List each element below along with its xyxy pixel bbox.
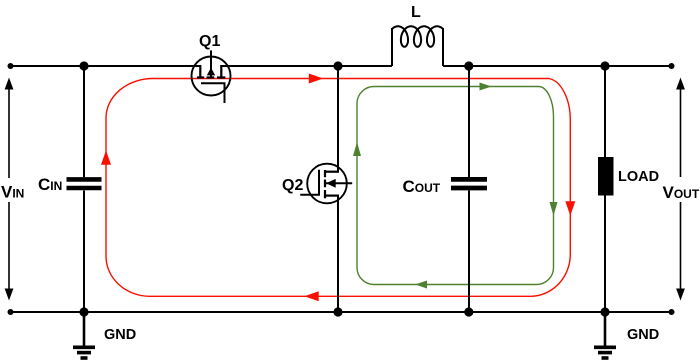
- red loop arrow left (bottom): [304, 291, 318, 301]
- COUT bottom plate: [451, 186, 487, 191]
- svg-text:COUT: COUT: [403, 177, 441, 196]
- Q1 body arrow (points up = P-channel): [207, 68, 215, 76]
- svg-text:Q1: Q1: [199, 33, 220, 50]
- capacitor COUT: [451, 179, 487, 188]
- Q2 circle outline: [307, 164, 347, 204]
- current loop green (Q2 on): [357, 87, 554, 285]
- Q2 drain stub (pin top): [325, 171, 339, 173]
- wire Q2 drain from rail: [337, 66, 339, 172]
- Q2 channel segments: [324, 170, 326, 198]
- inductor L coil: [392, 26, 443, 47]
- svg-text:GND: GND: [104, 327, 136, 343]
- transistor Q2 (N-MOSFET, low side): [300, 164, 352, 204]
- node VIN+ terminal dot: [8, 63, 14, 69]
- inductor L left riser: [391, 28, 393, 66]
- red loop arrow down (right): [565, 201, 575, 216]
- red loop arrow up (left): [101, 150, 111, 165]
- label VIN: [0, 178, 25, 202]
- node VOUT- terminal dot: [669, 309, 675, 315]
- transistor Q1 (P-MOSFET, high side): [192, 50, 231, 103]
- VIN measurement line: [8, 88, 10, 292]
- green loop arrow up (left): [353, 142, 361, 156]
- Q2 gate: [300, 170, 319, 195]
- Q1 circle outline: [192, 57, 231, 96]
- Q1 channel segments: [197, 76, 225, 78]
- ground left bars: [73, 345, 95, 349]
- junction LOAD top node: [600, 61, 609, 70]
- svg-text:L: L: [411, 4, 421, 21]
- ground symbol right: [594, 312, 616, 358]
- Q1 source stub (pin left): [199, 65, 201, 78]
- inductor L right riser: [442, 28, 444, 66]
- wire CIN branch top: [83, 66, 85, 177]
- junction Q2 source node: [333, 307, 342, 316]
- green loop arrow down (right): [550, 202, 558, 216]
- svg-text:LOAD: LOAD: [618, 169, 659, 185]
- Q2 body lead: [326, 182, 352, 184]
- junction LOAD bottom node: [600, 307, 609, 316]
- CIN top plate: [67, 177, 102, 182]
- wire bottom rail: [10, 311, 672, 313]
- wire LOAD branch bottom: [604, 196, 606, 313]
- label VOUT: [661, 177, 700, 202]
- wire top rail middle segment: [221, 65, 392, 67]
- wire top rail left segment: [10, 65, 200, 67]
- ground symbol left: [73, 312, 95, 358]
- svg-text:Q2: Q2: [282, 177, 303, 194]
- wire COUT branch top: [468, 66, 470, 177]
- Q1 drain stub (pin right): [220, 65, 222, 78]
- junction COUT bottom node: [464, 307, 473, 316]
- wire CIN branch bottom: [83, 191, 85, 313]
- green loop arrow left (bottom): [415, 281, 427, 289]
- CIN bottom plate: [67, 186, 102, 191]
- VIN arrowhead down: [5, 289, 14, 301]
- load resistor: [598, 157, 614, 196]
- junction CIN top node: [79, 61, 88, 70]
- VOUT arrowhead down: [676, 289, 685, 301]
- Q2 source stub (pin bottom): [325, 195, 339, 197]
- junction switch node (Q1/Q2/L): [333, 61, 342, 70]
- junction COUT top node: [464, 61, 473, 70]
- VIN arrowhead up: [5, 78, 14, 90]
- node VIN- terminal dot: [8, 309, 14, 315]
- Q2 body arrow (points to channel = N-channel): [326, 179, 336, 188]
- ground right stub wire: [604, 312, 607, 346]
- node VOUT+ terminal dot: [669, 63, 675, 69]
- wire top rail right segment: [443, 65, 672, 67]
- VOUT measurement line: [680, 88, 682, 292]
- wire Q2 source to rail: [337, 196, 339, 312]
- COUT top plate: [451, 177, 487, 182]
- green loop arrow right (top): [480, 83, 492, 91]
- svg-text:CIN: CIN: [38, 175, 62, 194]
- capacitor CIN: [67, 179, 102, 188]
- current loop red (Q1 on): [106, 79, 570, 297]
- wire LOAD branch top: [604, 66, 606, 157]
- Q1 body lead: [210, 50, 212, 77]
- svg-text:GND: GND: [627, 327, 659, 343]
- ground right bars: [594, 345, 616, 349]
- ground left stub wire: [83, 312, 86, 346]
- junction CIN bottom node: [79, 307, 88, 316]
- Q1 gate: [201, 83, 225, 103]
- red loop arrow right (top): [309, 74, 323, 84]
- VOUT arrowhead up: [676, 78, 685, 90]
- wire COUT branch bottom: [468, 191, 470, 313]
